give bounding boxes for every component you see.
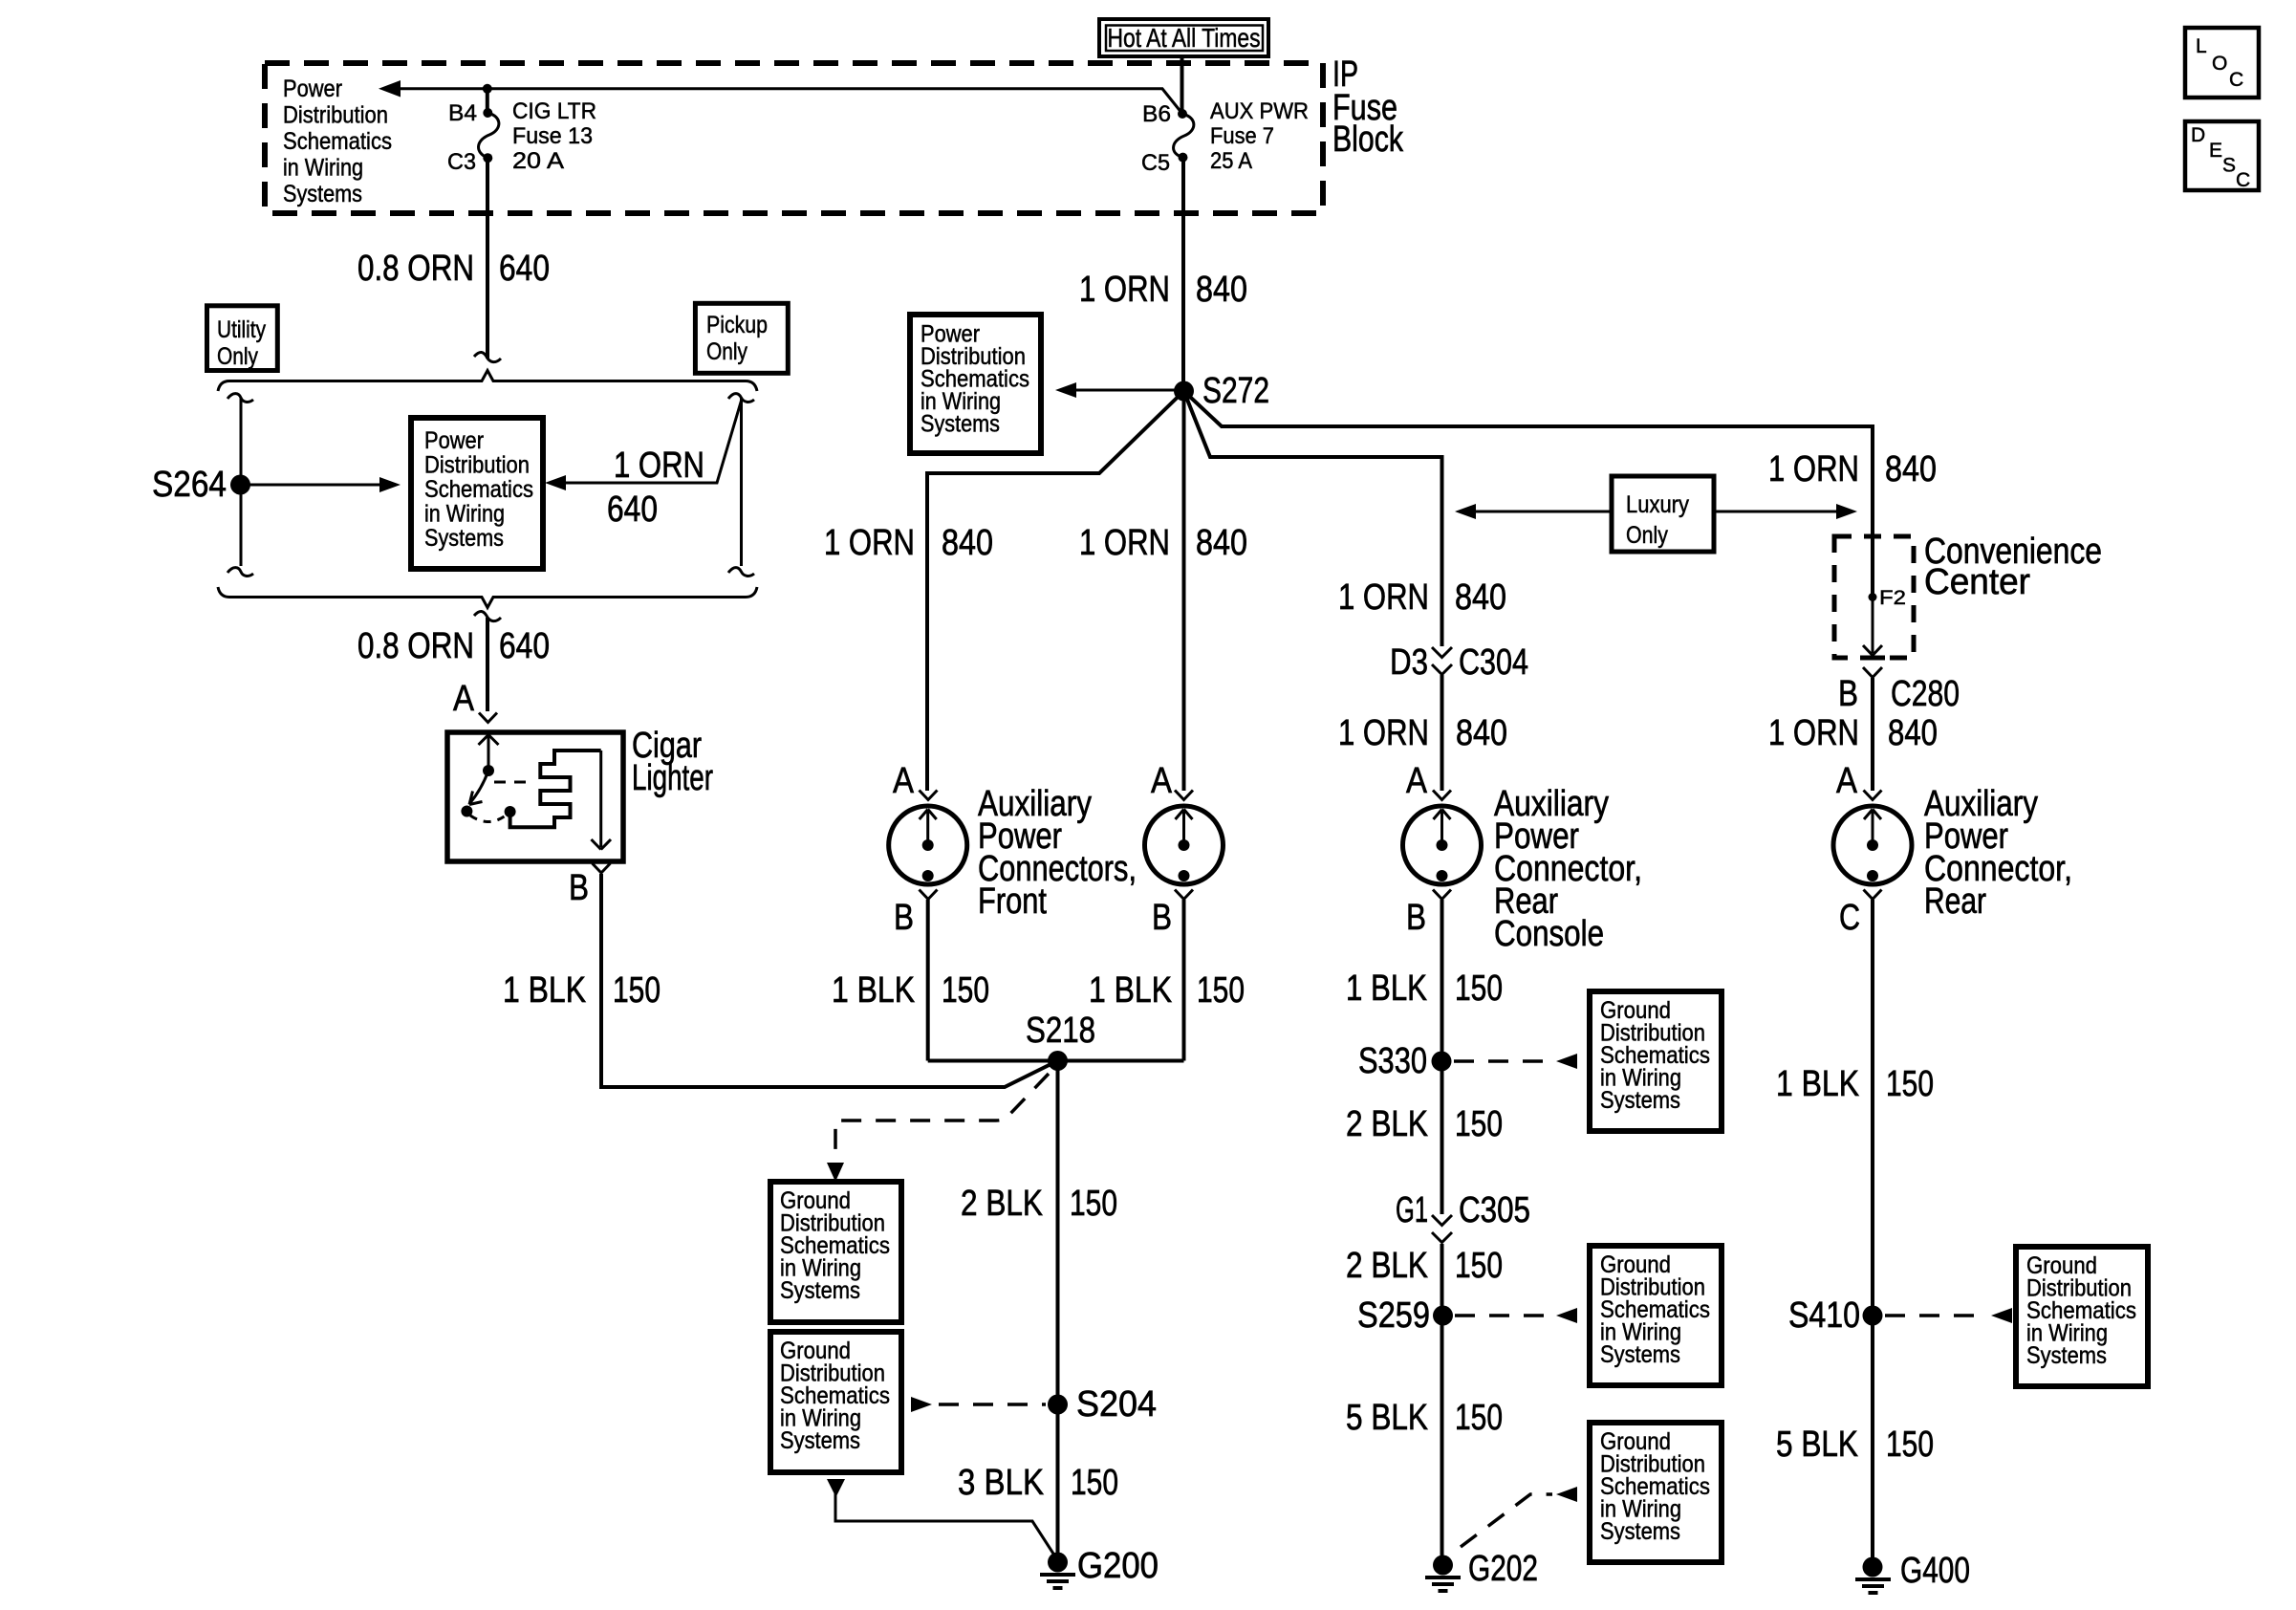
svg-text:840: 840 (1196, 523, 1247, 563)
svg-text:G400: G400 (1900, 1551, 1970, 1591)
svg-text:E: E (2209, 140, 2222, 162)
svg-text:C5: C5 (1141, 150, 1170, 176)
aux power connector rear (1833, 806, 1912, 884)
IP fuse block dashed boundary (265, 63, 1323, 213)
svg-text:1 BLK: 1 BLK (1089, 970, 1172, 1011)
label: IP Fuse Block (1332, 54, 1404, 160)
svg-text:2 BLK: 2 BLK (1346, 1246, 1428, 1286)
label box: Utility Only (207, 306, 278, 371)
label: Auxiliary Power Connector, Rear (1924, 784, 2072, 922)
svg-text:C304: C304 (1459, 642, 1528, 683)
svg-text:S218: S218 (1026, 1011, 1095, 1051)
wire label: 0.8 ORN 640 (357, 626, 550, 666)
svg-text:B6: B6 (1142, 101, 1171, 127)
note: Ground Distribution Schematics in Wiring Systems (S259) (1590, 1246, 1722, 1385)
cigar lighter: output lead with arrow (592, 751, 612, 850)
note: Power Distribution Schematics in Wiring Systems (middle) (910, 315, 1041, 453)
svg-text:G200: G200 (1077, 1546, 1159, 1586)
wire label: 1 ORN 840 (1079, 270, 1247, 310)
fuse F7: AUX PWR Fuse 7 25 A (1174, 98, 1309, 174)
label: Auxiliary Power Connector, Rear Console (1494, 784, 1642, 954)
svg-text:150: 150 (613, 970, 661, 1011)
wire label: 2 BLK 150 (961, 1184, 1117, 1224)
svg-text:150: 150 (942, 970, 989, 1011)
splice S410 (1788, 1295, 1883, 1336)
svg-text:Only: Only (706, 338, 747, 365)
svg-text:5 BLK: 5 BLK (1776, 1425, 1858, 1465)
wire: S272 to front connector 2 (1182, 391, 1186, 791)
convenience center dashed boundary (1834, 536, 1914, 658)
wire: convenience center lead with arrow (1863, 598, 1882, 656)
wire label: 1 BLK 150 (503, 970, 661, 1011)
wire: ground bus (928, 1059, 1184, 1063)
wire label: 1 ORN 840 (below C280) (1768, 713, 1938, 753)
splice S272 (1174, 371, 1269, 411)
svg-text:Power: Power (283, 76, 342, 102)
dashed ref: ground schematics to S204 (911, 1397, 1046, 1412)
pin B / connector C280 (1838, 658, 1960, 714)
wire: cigar lighter to S218 (601, 874, 1058, 1087)
svg-text:Fuse 7: Fuse 7 (1210, 123, 1274, 149)
svg-text:25 A: 25 A (1210, 148, 1252, 174)
svg-text:B: B (1838, 674, 1858, 714)
svg-text:150: 150 (1886, 1064, 1934, 1104)
svg-text:Systems: Systems (780, 1427, 860, 1454)
svg-text:3 BLK: 3 BLK (958, 1463, 1044, 1503)
svg-text:B: B (894, 898, 914, 938)
svg-text:150: 150 (1886, 1425, 1934, 1465)
pin C (rear connector) (1839, 890, 1882, 939)
svg-text:Systems: Systems (921, 411, 1000, 438)
pin B (front connector 2) (1152, 890, 1193, 939)
svg-text:640: 640 (499, 249, 550, 289)
svg-text:5 BLK: 5 BLK (1346, 1398, 1428, 1438)
wire label: 1 ORN 840 (rear) (1768, 449, 1937, 490)
svg-text:Block: Block (1332, 120, 1404, 160)
svg-text:1 ORN: 1 ORN (1079, 523, 1170, 563)
note: Power Distribution Schematics in Wiring Systems (left) (411, 418, 543, 569)
svg-text:D: D (2191, 124, 2205, 146)
wire label: 5 BLK 150 (rear) (1776, 1425, 1934, 1465)
splice S204 (1048, 1384, 1157, 1425)
svg-text:Only: Only (217, 343, 258, 370)
cigar lighter (447, 726, 713, 861)
svg-text:Distribution: Distribution (283, 102, 388, 129)
svg-text:C280: C280 (1891, 674, 1960, 714)
svg-text:Console: Console (1494, 914, 1604, 954)
pin B (console connector) (1406, 890, 1451, 939)
svg-text:840: 840 (1455, 577, 1506, 618)
label box: Pickup Only (695, 303, 788, 373)
pin A (rear connector) (1836, 761, 1882, 801)
wire: luxury-only arrow right (1714, 504, 1857, 519)
svg-text:640: 640 (499, 626, 550, 666)
svg-text:1 ORN: 1 ORN (824, 523, 915, 563)
wire: S218 to G200 (1056, 1061, 1060, 1563)
svg-text:Hot At All Times: Hot At All Times (1108, 23, 1261, 53)
svg-text:Only: Only (1626, 522, 1668, 549)
svg-text:CIG LTR: CIG LTR (512, 98, 596, 124)
svg-text:Systems: Systems (1600, 1518, 1680, 1545)
wire: bus from junction toward fuse 7 (487, 89, 1182, 114)
svg-text:C: C (2236, 169, 2250, 191)
wire: S272 arrow to schematics box (1055, 382, 1176, 398)
pin B6 (1142, 101, 1187, 127)
wire-end hook below brace (474, 611, 501, 620)
wire: ground schematics arrow to G200 (827, 1479, 1058, 1560)
brace: bottom option group (218, 587, 757, 608)
dashed ref: S259 to ground schematics (1455, 1308, 1577, 1323)
wire: console connector to G202 (1440, 900, 1444, 1214)
svg-text:150: 150 (1455, 1398, 1503, 1438)
wire label: 3 BLK 150 (958, 1463, 1118, 1503)
svg-text:AUX PWR: AUX PWR (1210, 98, 1309, 124)
wire label: 2 BLK 150 (below C305) (1346, 1246, 1503, 1286)
svg-text:L: L (2196, 35, 2207, 57)
svg-text:A: A (1836, 761, 1858, 801)
splice S259 (1357, 1295, 1453, 1336)
dashed ref: S330 to ground schematics (1454, 1054, 1577, 1069)
label box: Luxury Only (1612, 476, 1714, 552)
svg-text:S272: S272 (1202, 371, 1269, 411)
svg-text:840: 840 (942, 523, 993, 563)
note: Ground Distribution Schematics in Wiring Systems (G202) (1590, 1423, 1722, 1562)
wire: C304 to console connector (1440, 675, 1444, 791)
svg-text:1 ORN: 1 ORN (1079, 270, 1170, 310)
wire: from Hot At All Times into fuse block (1180, 56, 1184, 114)
note: Ground Distribution Schematics in Wiring Systems (S218) (770, 1182, 901, 1322)
svg-text:20 A: 20 A (512, 148, 564, 174)
label: Auxiliary Power Connectors, Front (978, 784, 1137, 922)
bracket: pickup-only side (728, 394, 754, 577)
svg-text:Systems: Systems (780, 1277, 860, 1304)
svg-text:150: 150 (1070, 1184, 1117, 1224)
svg-text:Center: Center (1924, 562, 2030, 602)
cigar lighter: contacts (461, 806, 472, 817)
wire label: 1 ORN 840 (below C304) (1338, 713, 1507, 753)
wire label: 2 BLK 150 (console) (1346, 1104, 1503, 1144)
ground G400 (1855, 1551, 1970, 1593)
wire: S264 arrow to schematics box (241, 477, 401, 492)
cigar lighter: dashed links (470, 816, 506, 822)
svg-text:Systems: Systems (1600, 1341, 1680, 1368)
svg-text:840: 840 (1885, 449, 1937, 490)
svg-text:A: A (893, 761, 915, 801)
wire label: 1 BLK 150 (rear) (1776, 1064, 1934, 1104)
svg-text:Systems: Systems (2026, 1342, 2107, 1369)
label box: DESC (2185, 121, 2259, 191)
svg-text:840: 840 (1888, 713, 1938, 753)
svg-text:S264: S264 (152, 465, 227, 505)
svg-text:Systems: Systems (283, 181, 362, 207)
svg-text:C: C (1839, 898, 1860, 938)
bracket: utility-only side (227, 394, 253, 577)
wire label: 1 BLK 150 (console) (1346, 968, 1503, 1009)
svg-text:B: B (1406, 898, 1426, 938)
svg-text:O: O (2212, 53, 2227, 75)
connector C304 pin D3 (1390, 642, 1528, 683)
svg-text:in Wiring: in Wiring (283, 155, 363, 182)
pin A (console connector) (1406, 761, 1451, 801)
wire label: 1 ORN 840 (console top) (1338, 577, 1506, 618)
splice S218 (1026, 1011, 1095, 1071)
svg-text:150: 150 (1455, 1246, 1503, 1286)
aux power connector front 2 (1145, 806, 1224, 884)
svg-text:1 BLK: 1 BLK (1776, 1064, 1859, 1104)
svg-text:Pickup: Pickup (706, 312, 768, 338)
wire: C3 down to brace group (486, 158, 489, 359)
note: Power Distribution Schematics in Wiring Systems (fuse block) (283, 76, 392, 207)
svg-text:A: A (1151, 761, 1173, 801)
wire label: 5 BLK 150 (console) (1346, 1398, 1503, 1438)
svg-text:C305: C305 (1459, 1190, 1530, 1230)
wire: rear connector to G400 (1871, 900, 1874, 1562)
svg-text:0.8 ORN: 0.8 ORN (357, 626, 474, 666)
wire: feed to Power Distribution Schematics with arrow (379, 80, 487, 98)
wire: C5 down to splice S272 (1181, 158, 1185, 391)
pin A (front connector 2) (1151, 761, 1193, 801)
note: Ground Distribution Schematics in Wiring Systems (S330) (1590, 991, 1722, 1131)
note: Ground Distribution Schematics in Wiring Systems (S204) (770, 1332, 901, 1472)
svg-text:640: 640 (607, 490, 658, 530)
wire: luxury-only arrow left (1455, 504, 1612, 519)
svg-text:1 BLK: 1 BLK (503, 970, 586, 1011)
svg-text:C: C (2229, 69, 2243, 91)
fuse F13: CIG LTR Fuse 13 20 A (479, 98, 596, 174)
label box: LOC (2185, 28, 2259, 98)
svg-text:Utility: Utility (217, 316, 266, 343)
aux power connector front 1 (889, 806, 967, 884)
pin B (front connector 1) (894, 890, 938, 939)
svg-text:1 ORN: 1 ORN (1338, 713, 1429, 753)
pin C3 (447, 149, 492, 175)
svg-text:B: B (1152, 898, 1172, 938)
svg-text:150: 150 (1455, 968, 1503, 1009)
cigar lighter: heating element (510, 751, 601, 827)
svg-text:Luxury: Luxury (1626, 491, 1689, 518)
wire label: 1 BLK 150 (front 2) (1089, 970, 1245, 1011)
wire: brace to cigar lighter (486, 618, 489, 711)
label: Convenience Center (1924, 532, 2102, 602)
svg-text:1 ORN: 1 ORN (1768, 449, 1859, 490)
label box: Hot At All Times (1099, 19, 1268, 56)
fuse F2 (convenience center) (1869, 587, 1907, 609)
dashed ref: S218 to ground schematics (827, 1074, 1049, 1182)
svg-text:S259: S259 (1357, 1295, 1430, 1336)
svg-text:Systems: Systems (424, 525, 504, 552)
wire label: 1 ORN 640 (607, 446, 704, 530)
wire-end hook (474, 352, 501, 361)
node: junction above fuse 13 (483, 84, 492, 94)
wire label: 1 BLK 150 (front 1) (832, 970, 989, 1011)
wire: front connector 1 to bus (926, 900, 930, 1061)
wire label: 1 ORN 840 (front 2) (1079, 523, 1247, 563)
svg-text:1 ORN: 1 ORN (1768, 713, 1859, 753)
svg-text:B4: B4 (448, 100, 477, 126)
svg-text:150: 150 (1197, 970, 1245, 1011)
dashed ref: S410 to ground schematics (1885, 1308, 2012, 1323)
cigar lighter: plug arrow (479, 735, 499, 777)
svg-text:2 BLK: 2 BLK (1346, 1104, 1428, 1144)
svg-text:150: 150 (1071, 1463, 1118, 1503)
svg-text:0.8 ORN: 0.8 ORN (357, 249, 474, 289)
cigar lighter: switch arm (469, 771, 488, 805)
svg-text:Power: Power (424, 427, 484, 454)
svg-text:A: A (453, 679, 475, 719)
connector C305 pin G1 (1396, 1190, 1530, 1243)
svg-text:G1: G1 (1396, 1190, 1428, 1230)
wire: S272 to front connector 1 (927, 391, 1184, 791)
wire label: 1 ORN 840 (front 1) (824, 523, 993, 563)
svg-text:A: A (1406, 761, 1428, 801)
svg-text:Fuse 13: Fuse 13 (512, 123, 593, 149)
svg-text:Lighter: Lighter (632, 758, 713, 798)
svg-text:S330: S330 (1358, 1041, 1427, 1081)
svg-text:in Wiring: in Wiring (424, 501, 505, 528)
splice S330 (1358, 1041, 1452, 1081)
svg-text:Rear: Rear (1924, 881, 1986, 922)
brace: top option group (218, 371, 757, 392)
svg-text:D3: D3 (1390, 642, 1428, 683)
ground G202 (1425, 1549, 1538, 1591)
wire: front connector 2 to bus (1182, 900, 1186, 1061)
ground G200 (1040, 1546, 1159, 1588)
svg-text:1 ORN: 1 ORN (614, 446, 704, 486)
svg-text:B: B (569, 868, 589, 908)
svg-text:C3: C3 (447, 149, 476, 175)
svg-text:1 BLK: 1 BLK (1346, 968, 1427, 1009)
svg-text:S204: S204 (1076, 1384, 1157, 1425)
svg-text:1 ORN: 1 ORN (1338, 577, 1429, 618)
svg-text:Systems: Systems (1600, 1087, 1680, 1114)
pin C5 (1141, 150, 1188, 176)
splice S264 (152, 465, 250, 505)
wire: junction to B4 (486, 89, 489, 113)
svg-text:2 BLK: 2 BLK (961, 1184, 1043, 1224)
pin A (cigar lighter) (453, 679, 497, 723)
dashed ref: G202 wire to ground schematics (1461, 1487, 1577, 1547)
wire label: 0.8 ORN 640 (357, 249, 550, 289)
svg-text:S410: S410 (1788, 1295, 1860, 1336)
svg-text:Schematics: Schematics (424, 476, 533, 503)
aux power connector rear console (1403, 806, 1482, 884)
svg-text:Schematics: Schematics (283, 128, 392, 155)
svg-text:F2: F2 (1879, 587, 1906, 609)
svg-text:840: 840 (1196, 270, 1247, 310)
pin B4 (448, 100, 492, 126)
pin B (cigar lighter) (569, 863, 611, 908)
pin A (front connector 1) (893, 761, 938, 801)
svg-text:G202: G202 (1468, 1549, 1538, 1589)
wire: C280 to rear connector (1871, 678, 1874, 791)
wire: pickup feed arrow to schematics box (545, 401, 742, 490)
wire: S272 to rear console run (1184, 391, 1442, 646)
note: Ground Distribution Schematics in Wiring Systems (S410) (2016, 1247, 2148, 1386)
svg-text:150: 150 (1455, 1104, 1503, 1144)
wire: S272 to rear connector run (1184, 391, 1874, 598)
svg-text:Distribution: Distribution (424, 452, 530, 479)
svg-text:Front: Front (978, 881, 1047, 922)
svg-text:S: S (2222, 155, 2236, 177)
svg-text:840: 840 (1456, 713, 1507, 753)
svg-text:1 BLK: 1 BLK (832, 970, 915, 1011)
